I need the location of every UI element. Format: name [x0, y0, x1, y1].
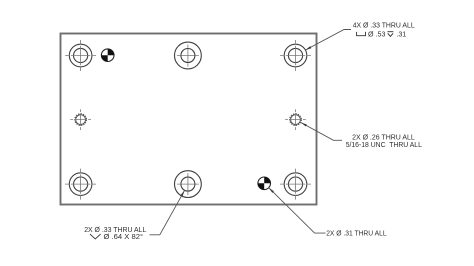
hole A3 counterbored bottom-left	[69, 173, 92, 196]
hole A2 counterbored top-right	[284, 44, 307, 67]
centerline crosshair C2	[285, 109, 306, 130]
svg-text:2X Ø .31 THRU ALL: 2X Ø .31 THRU ALL	[326, 231, 386, 238]
arrowhead L1	[305, 46, 311, 50]
note N1 line2: counterbore dia .53 depth .31	[357, 32, 394, 37]
svg-text:Ø .64 X 82°: Ø .64 X 82°	[104, 233, 144, 241]
datum target D1	[101, 49, 114, 62]
plate outline	[61, 34, 317, 205]
hole B2 countersunk bottom-middle	[175, 171, 202, 198]
hole C2 tapped right-middle	[290, 114, 302, 126]
hole A4 counterbored bottom-right	[284, 173, 307, 196]
centerline crosshair A3	[65, 169, 96, 200]
hole A1 counterbored top-left	[69, 44, 92, 67]
leader L2 to hole C2	[301, 123, 342, 141]
arrowhead L3	[181, 190, 185, 196]
svg-text:.31: .31	[396, 32, 406, 39]
centerline crosshair A1	[65, 40, 96, 71]
centerline crosshair C1	[70, 109, 91, 130]
arrowhead L2	[301, 123, 307, 127]
svg-text:4X Ø .33 THRU ALL: 4X Ø .33 THRU ALL	[353, 22, 415, 29]
leader L4 to datum target D2	[269, 188, 326, 233]
centerline crosshair B1	[177, 45, 199, 67]
hole B1 countersunk top-middle	[175, 42, 202, 69]
centerline crosshair B2	[177, 173, 199, 195]
centerline crosshair A4	[280, 169, 311, 200]
arrowhead L4	[269, 188, 274, 193]
svg-text:5/16-18 UNC THRU ALL: 5/16-18 UNC THRU ALL	[346, 142, 422, 149]
leader L3 to hole B2	[150, 190, 185, 235]
note N3 line2: countersink dia .64 X 82deg	[90, 234, 101, 239]
svg-text:Ø .53: Ø .53	[368, 32, 386, 39]
leader L1 to hole A2	[305, 30, 351, 51]
hole C1 tapped left-middle	[75, 114, 87, 126]
svg-text:2X Ø .26 THRU ALL: 2X Ø .26 THRU ALL	[352, 134, 415, 141]
datum target D2	[258, 177, 271, 190]
centerline crosshair A2	[280, 40, 311, 71]
